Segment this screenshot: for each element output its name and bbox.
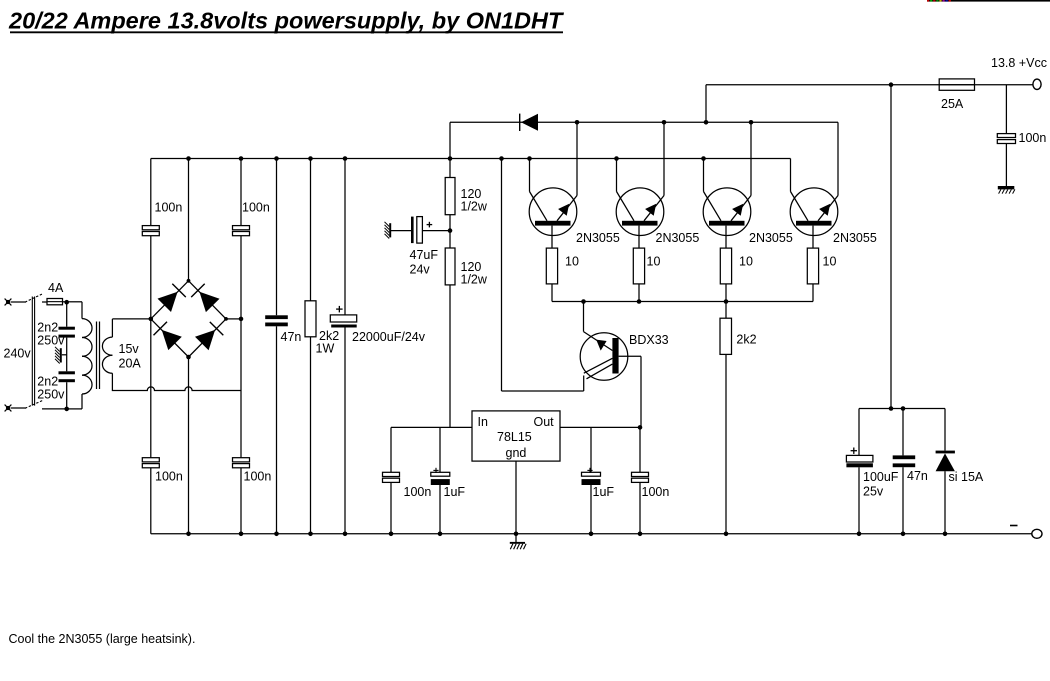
resistor 10 ohm Q2: [633, 248, 644, 284]
wire x345 lower: [344, 328, 346, 534]
label si 15A: [949, 470, 984, 484]
node minus rail x345: [343, 532, 348, 537]
wire link output rails: [705, 85, 707, 123]
wire x276 upper: [276, 159, 278, 316]
wire switch to fuse: [42, 301, 47, 303]
transistor Q1 2N3055: [529, 122, 577, 248]
svg-text:1/2w: 1/2w: [461, 273, 488, 287]
wire In net: [391, 426, 472, 428]
transistor Q4 2N3055: [790, 122, 838, 248]
label 250v bottom: [37, 388, 65, 402]
svg-text:47uF: 47uF: [410, 248, 439, 262]
wire gnd lead: [515, 461, 517, 542]
svg-text:20A: 20A: [119, 357, 142, 371]
resistor 10 ohm Q4: [807, 248, 818, 284]
node minus rail x188.5: [186, 532, 191, 537]
node output rail x751: [749, 120, 754, 125]
capacitor 2n2 top: [59, 327, 75, 338]
diode bridge D4 (bottom-right): [195, 322, 223, 350]
ground 47uF: [385, 222, 391, 239]
label 100n Out: [642, 485, 670, 499]
capacitor 100n (AC1 to minus): [142, 458, 159, 468]
svg-text:2N3055: 2N3055: [656, 231, 700, 245]
label 2k2 1W: [319, 329, 339, 343]
svg-text:15v: 15v: [119, 342, 140, 356]
wire bridge arm TR: [189, 281, 227, 319]
wire x276 lower: [276, 326, 278, 534]
node 47uF junction: [448, 228, 453, 233]
wire x151 mid: [150, 236, 152, 319]
terminal mains L: [5, 299, 12, 306]
node DC+ rail x310.5: [308, 156, 313, 161]
capacitor 22000uF/24v: [330, 306, 356, 328]
label 2N3055 Q3: [749, 231, 793, 245]
wire bridge AC2 link: [226, 318, 241, 320]
node DC+ rail x529.5: [527, 156, 532, 161]
wire fuse to node: [63, 301, 67, 303]
node bridge top: [187, 279, 191, 283]
label 1/2w b: [461, 273, 488, 287]
op-amp U1 78L15 box: [472, 411, 560, 461]
ground mains filter: [55, 347, 61, 364]
svg-text:24v: 24v: [410, 263, 431, 277]
node DC+ rail x345: [343, 156, 348, 161]
label 100n x241 bottom: [244, 470, 272, 484]
wire secondary top to bridge: [112, 319, 150, 337]
wire minus rail: [151, 533, 1034, 535]
terminal mains N: [5, 405, 12, 412]
node base bus x639: [637, 299, 642, 304]
transformer secondary winding: [102, 337, 112, 373]
capacitor 100uF 25v: [846, 409, 873, 534]
label In: [478, 415, 488, 429]
title text: [8, 8, 564, 34]
wire R120b down to In: [449, 285, 451, 428]
label 100n In: [404, 485, 432, 499]
terminal minus: [1032, 529, 1042, 538]
capacitor 100n (rail to AC1): [142, 226, 159, 236]
diode D5 (rail to regulator node): [520, 114, 538, 131]
svg-text:2k2: 2k2: [736, 333, 756, 347]
label 10 Q4: [823, 255, 837, 269]
wire bus to 2k2: [725, 302, 727, 319]
node output rail x706: [704, 120, 709, 125]
node bridge right: [224, 317, 228, 321]
node minus rail x640: [638, 532, 643, 537]
svg-text:100n: 100n: [642, 485, 670, 499]
label 2n2 bottom: [37, 375, 58, 389]
node minus rail x726: [724, 532, 729, 537]
svg-text:4A: 4A: [48, 281, 64, 295]
svg-text:1/2w: 1/2w: [461, 200, 488, 214]
capacitor 47n out: [893, 409, 916, 534]
label 100n x151 top: [155, 201, 183, 215]
capacitor 1uF In: [431, 427, 450, 533]
label 47n out: [907, 469, 928, 483]
node DC+ rail x276.5: [274, 156, 279, 161]
wire x151 upper: [150, 159, 152, 226]
wire base drive bus: [552, 301, 813, 303]
node Out net: [638, 425, 643, 430]
svg-text:In: In: [478, 415, 488, 429]
label 78L15: [497, 430, 532, 444]
switch coupling link: [32, 297, 34, 406]
node bridge left: [149, 317, 154, 322]
svg-text:1uF: 1uF: [593, 485, 615, 499]
label 24v: [410, 263, 431, 277]
wire output rail branch down: [890, 85, 892, 409]
wire 2k2 to minus rail: [725, 354, 727, 533]
diode bridge D2 (top-right): [191, 284, 219, 312]
resistor 120 1/2w upper: [445, 178, 455, 215]
svg-text:100n: 100n: [155, 470, 183, 484]
svg-text:25A: 25A: [941, 97, 964, 111]
wire secondary bottom to bridge (hops over DC lines): [112, 373, 241, 390]
wire mains N lead: [11, 407, 26, 409]
label 47n filter: [281, 330, 302, 344]
node minus rail x516: [514, 532, 519, 537]
wire bridge arm BL: [151, 319, 189, 357]
label 1uF In: [444, 485, 466, 499]
transformer primary winding: [82, 319, 92, 394]
label 100n Vcc: [1019, 131, 1047, 145]
capacitor 100n Vcc: [997, 85, 1015, 186]
node AC2 on x241: [239, 317, 244, 322]
node bridge bottom: [186, 355, 191, 360]
svg-text:gnd: gnd: [506, 446, 527, 460]
svg-text:Cool the 2N3055 (large heatsin: Cool the 2N3055 (large heatsink).: [9, 632, 196, 646]
label 20A: [119, 357, 142, 371]
switch pole top: [25, 294, 43, 303]
capacitor 100n Out: [632, 427, 649, 533]
wire node to primary top: [67, 302, 82, 319]
node x903 R408: [901, 406, 906, 411]
wire x310 upper: [310, 159, 312, 301]
capacitor 1uF Out: [582, 427, 601, 533]
label 15v: [119, 342, 140, 356]
diode bridge D1 (top-left): [158, 284, 186, 312]
label gnd: [506, 446, 527, 460]
wire output cap bus: [859, 408, 945, 410]
wire Q2 base resistor to bus: [638, 284, 640, 302]
wire x241 upper: [240, 159, 242, 226]
wire BDX33 collector lead: [502, 159, 584, 392]
label 250v top: [37, 334, 65, 348]
resistor 10 ohm Q1: [546, 248, 557, 284]
label 25A: [941, 97, 964, 111]
wire BDX33 collector double: [584, 358, 613, 379]
node minus rail x276.5: [274, 532, 279, 537]
node top rail x891: [889, 82, 894, 87]
ground Vcc 100n: [998, 186, 1015, 194]
node DC+ rail x616.5: [614, 156, 619, 161]
capacitor 100n In: [383, 427, 400, 533]
wire x241 to bottom rail: [240, 468, 242, 534]
wire x241 mid: [240, 236, 242, 458]
wire x345 upper: [344, 159, 346, 315]
transistor Q3 2N3055: [703, 122, 751, 248]
transistor BDX33 arrow: [596, 340, 606, 351]
label 1uF Out: [593, 485, 615, 499]
svg-text:100n: 100n: [404, 485, 432, 499]
node minus rail x440: [438, 532, 443, 537]
diode D6 si 15A: [936, 409, 955, 534]
node minus rail x859: [857, 532, 862, 537]
svg-text:2n2: 2n2: [37, 321, 58, 335]
fuse F2 25A: [939, 79, 974, 90]
label 1/2w a: [461, 200, 488, 214]
wire mains L lead: [11, 301, 26, 303]
label 100n x151 bottom: [155, 470, 183, 484]
node base bus x726: [724, 299, 729, 304]
node output rail x577: [575, 120, 580, 125]
svg-text:2n2: 2n2: [37, 375, 58, 389]
terminal +Vcc: [1033, 79, 1041, 89]
label 2N3055 Q2: [656, 231, 700, 245]
wire bridge- down: [188, 357, 190, 534]
transformer core: [97, 322, 100, 390]
fuse F1 4A: [47, 299, 63, 305]
label 22000uF/24v: [352, 330, 426, 344]
switch pole bottom: [25, 400, 43, 408]
svg-text:BDX33: BDX33: [629, 333, 669, 347]
capacitor 100n (rail to AC2): [233, 226, 250, 236]
label BDX33: [629, 333, 669, 347]
svg-text:240v: 240v: [4, 347, 32, 361]
label 2n2 top: [37, 321, 58, 335]
wire 47uF to node: [422, 230, 450, 232]
svg-text:10: 10: [565, 255, 579, 269]
node minus rail x310.5: [308, 532, 313, 537]
svg-text:47n: 47n: [907, 469, 928, 483]
wire Q4 base resistor to bus: [812, 284, 814, 302]
wire x151 to bottom rail: [150, 468, 152, 534]
wire diode link down: [449, 122, 451, 158]
wire BDX33 base lead: [619, 356, 641, 427]
label 100uF: [863, 470, 899, 484]
transistor Q2 2N3055: [616, 122, 664, 248]
capacitor 100n (AC2 to minus): [233, 458, 250, 468]
svg-text:1W: 1W: [316, 341, 335, 355]
wire mid to ground: [62, 354, 67, 356]
wire Out net: [560, 426, 640, 428]
diode bridge D3 (bottom-left): [154, 322, 182, 350]
node DC+ rail x450: [448, 156, 453, 161]
wire switch to node bottom: [42, 408, 67, 410]
svg-text:100n: 100n: [242, 201, 270, 215]
wire bridge arm TL: [151, 281, 189, 319]
svg-text:100n: 100n: [1019, 131, 1047, 145]
svg-text:250v: 250v: [37, 334, 65, 348]
label 100n x241 top: [242, 201, 270, 215]
svg-text:10: 10: [647, 255, 661, 269]
svg-text:100uF: 100uF: [863, 470, 899, 484]
label 120 b: [461, 260, 482, 274]
node base bus x583.5: [581, 299, 586, 304]
wire primary bottom to node: [67, 394, 82, 409]
label 47uF: [410, 248, 439, 262]
label 4A: [48, 281, 64, 295]
wire BDX33 emitter up: [584, 302, 613, 351]
resistor 10 ohm Q3: [720, 248, 731, 284]
wire x310 lower: [310, 337, 312, 534]
wire raw DC+ rail: [151, 158, 791, 160]
node x891 R408: [889, 406, 894, 411]
wire Q1 base resistor to bus: [551, 284, 553, 302]
node output rail x664: [662, 120, 667, 125]
label 2N3055 Q4: [833, 231, 877, 245]
node DC+ rail x501.5: [499, 156, 504, 161]
svg-text:2N3055: 2N3055: [833, 231, 877, 245]
capacitor 47uF 24v: [411, 217, 432, 244]
label 1W: [316, 341, 335, 355]
node DC+ rail x188.5: [186, 156, 191, 161]
node DC+ rail x241: [239, 156, 244, 161]
label 2k2 pulldown: [736, 333, 756, 347]
label 240v: [4, 347, 32, 361]
transistor BDX33 body: [580, 333, 628, 381]
svg-text:100n: 100n: [155, 201, 183, 215]
wire bridge arm BR: [189, 319, 227, 357]
capacitor 47n filter: [265, 315, 288, 326]
label Out: [534, 415, 555, 429]
node minus rail x903: [901, 532, 906, 537]
svg-text:47n: 47n: [281, 330, 302, 344]
title underline artifact: [927, 0, 1050, 2]
svg-text:si 15A: si 15A: [949, 470, 984, 484]
label 10 Q1: [565, 255, 579, 269]
wire top output rail: [706, 84, 1033, 86]
label 10 Q3: [739, 255, 753, 269]
label 2N3055 Q1: [576, 231, 620, 245]
svg-text:13.8 +Vcc: 13.8 +Vcc: [991, 56, 1047, 70]
wire R120a to node: [449, 215, 451, 248]
node primary top: [64, 300, 69, 305]
ground 78L15: [510, 542, 526, 549]
wire bridge+ up: [188, 159, 190, 281]
svg-text:1uF: 1uF: [444, 485, 466, 499]
svg-text:20/22 Ampere 13.8volts powersu: 20/22 Ampere 13.8volts powersupply, by O…: [8, 8, 564, 34]
wire Q3 base resistor to bus: [725, 284, 727, 302]
node minus rail x945: [943, 532, 948, 537]
node DC+ rail x703.5: [701, 156, 706, 161]
svg-text:25v: 25v: [863, 485, 884, 499]
resistor 2k2 pulldown: [720, 318, 732, 354]
svg-text:10: 10: [739, 255, 753, 269]
label 13.8 +Vcc: [991, 56, 1047, 70]
node primary bottom: [64, 407, 69, 412]
node minus rail x591: [589, 532, 594, 537]
resistor 2k2 1W bleeder: [305, 301, 316, 337]
label 25v: [863, 485, 884, 499]
label minus: [1010, 525, 1018, 527]
note text: [9, 632, 196, 646]
svg-text:2N3055: 2N3055: [576, 231, 620, 245]
label 120 a: [461, 187, 482, 201]
wire node to C 2n2 top: [66, 302, 68, 327]
label 10 Q2: [647, 255, 661, 269]
svg-text:78L15: 78L15: [497, 430, 532, 444]
wire x151 lower: [150, 319, 152, 458]
capacitor 2n2 bottom: [59, 371, 75, 382]
svg-text:250v: 250v: [37, 388, 65, 402]
svg-text:10: 10: [823, 255, 837, 269]
svg-text:Out: Out: [534, 415, 555, 429]
wire between 2n2 caps: [66, 338, 68, 372]
wire rail to R 120 a: [449, 159, 451, 178]
node minus rail x391: [389, 532, 394, 537]
resistor 120 1/2w lower: [445, 248, 455, 285]
wire 2n2 to node bottom: [66, 382, 68, 409]
wire output rail (emitters): [450, 121, 838, 123]
svg-text:2N3055: 2N3055: [749, 231, 793, 245]
svg-text:100n: 100n: [244, 470, 272, 484]
node minus rail x241: [239, 532, 244, 537]
wire ground to 47uF: [391, 230, 411, 232]
svg-text:22000uF/24v: 22000uF/24v: [352, 330, 426, 344]
